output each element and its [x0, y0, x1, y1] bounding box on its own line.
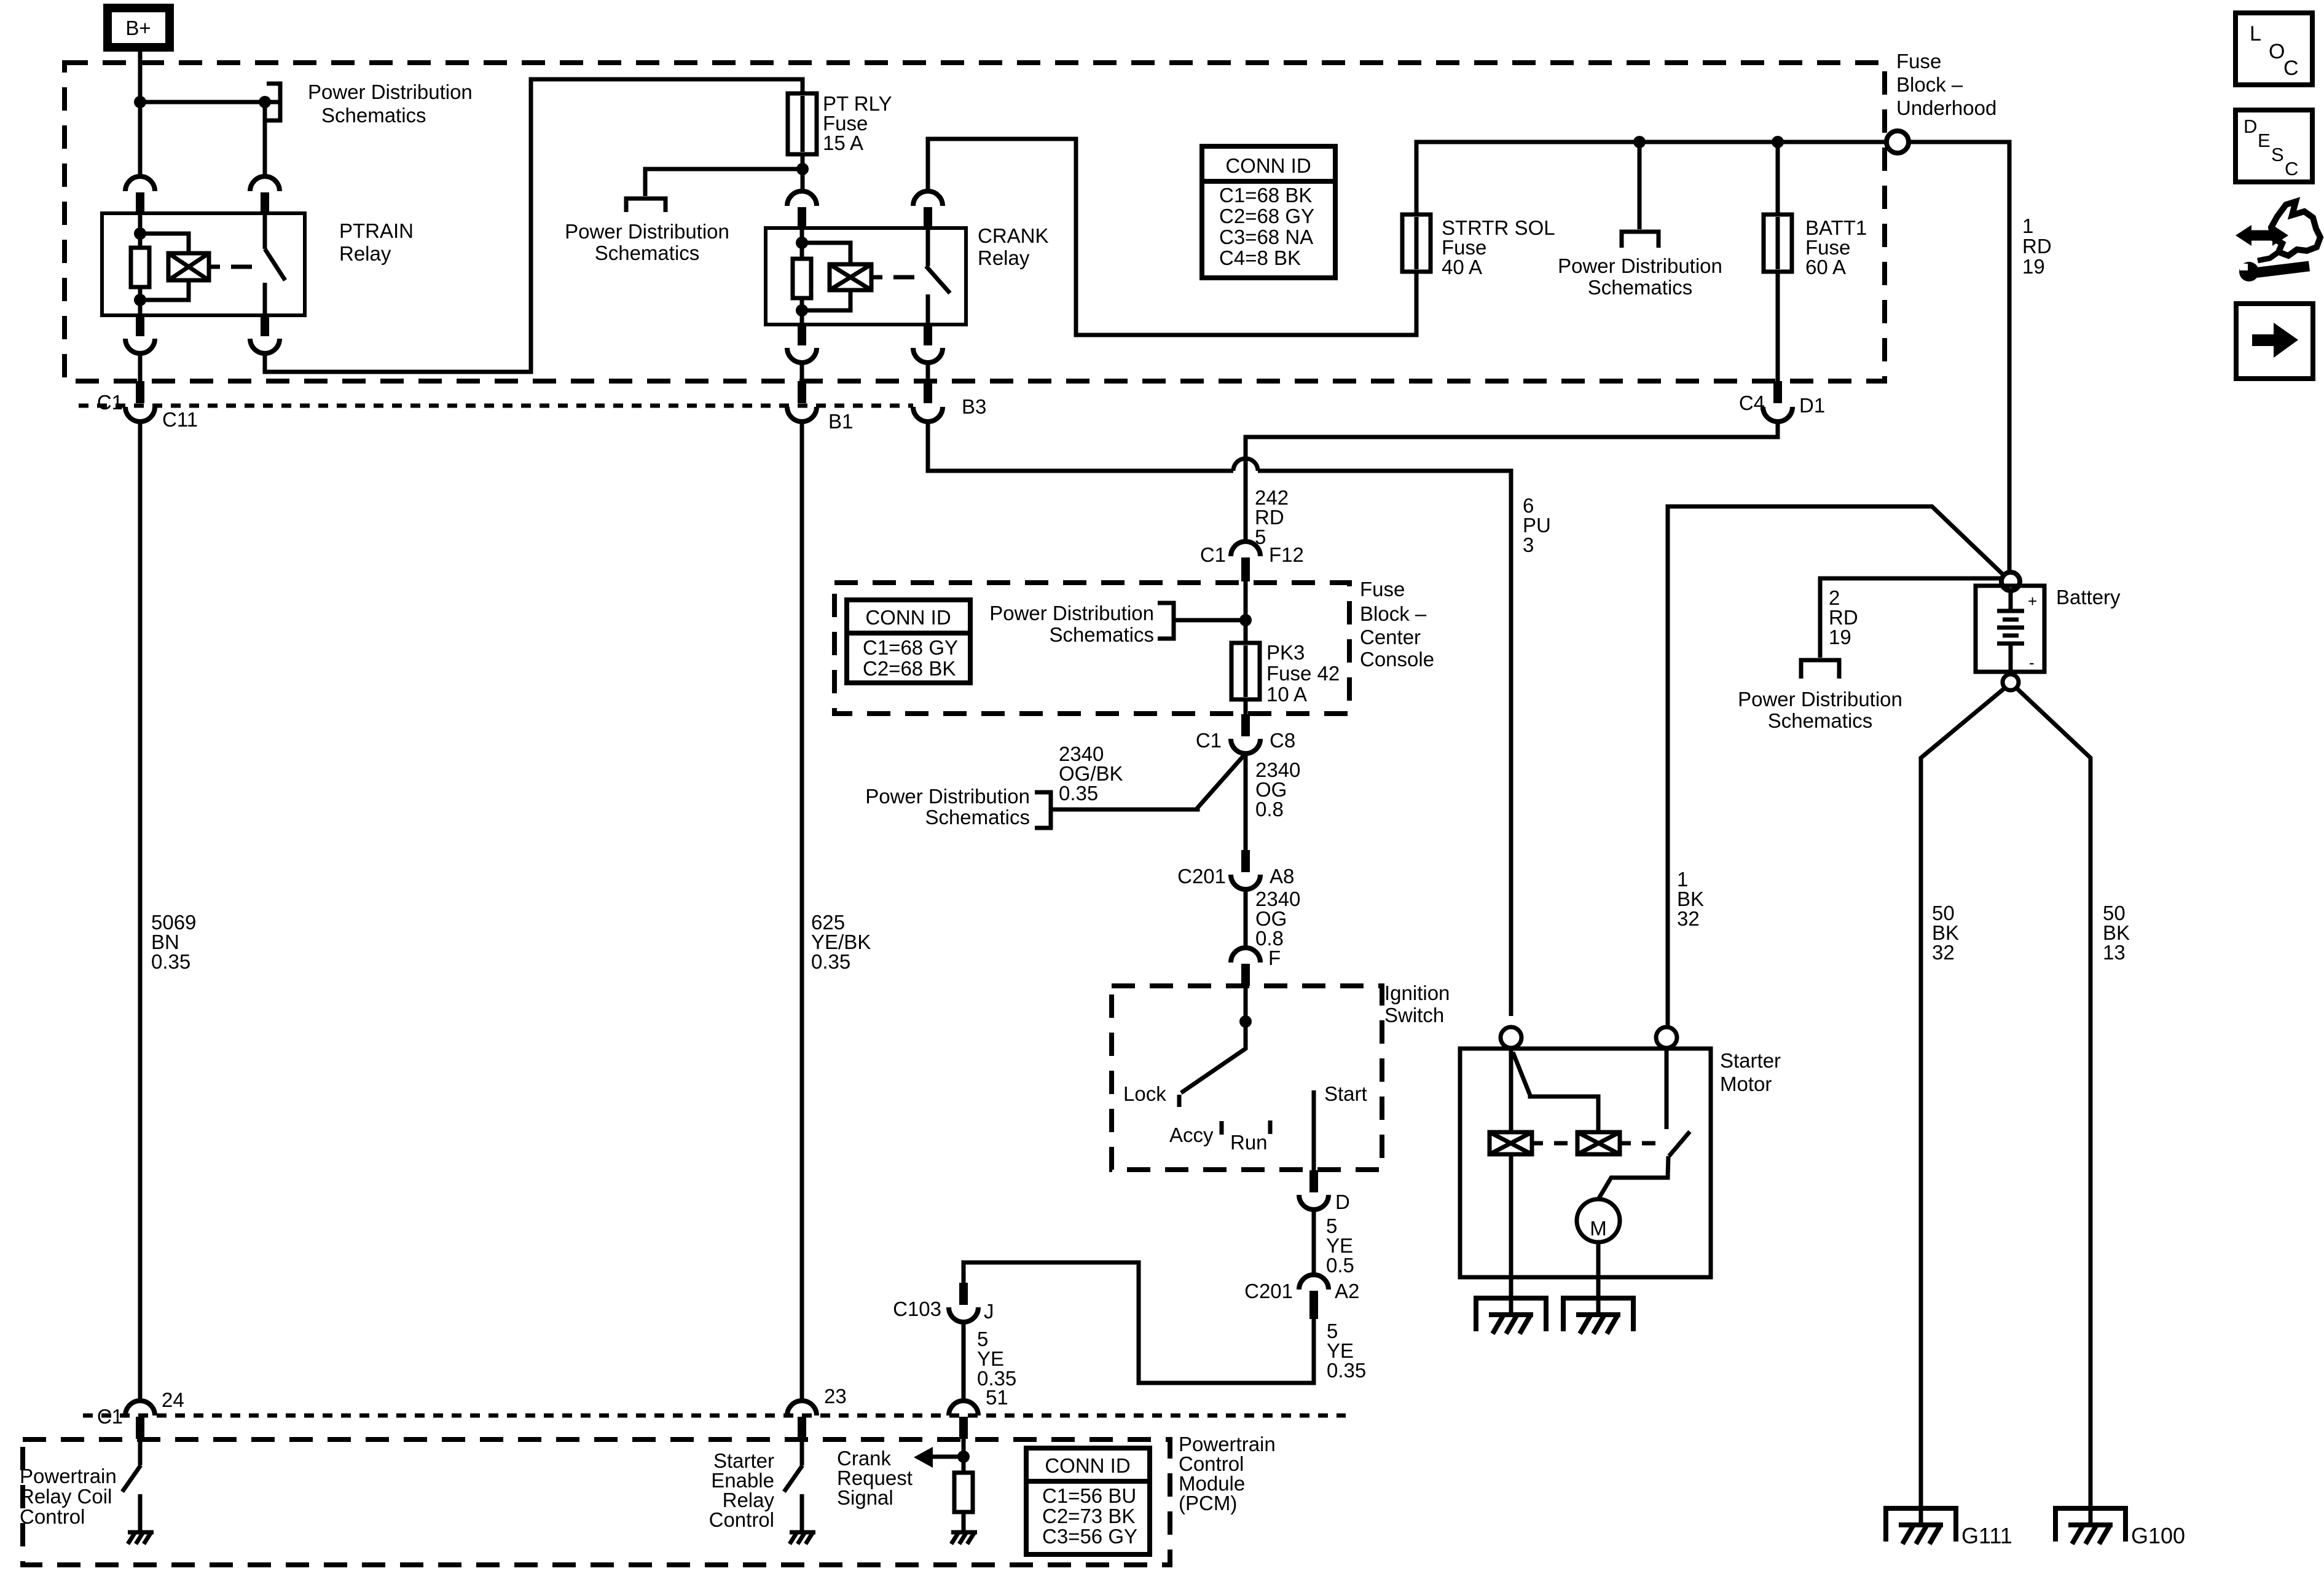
ignition switch dashed enclosure — [1112, 986, 1382, 1170]
svg-text:D1: D1 — [1799, 394, 1825, 417]
svg-text:Power Distribution: Power Distribution — [308, 81, 473, 103]
wire C8 to C201 A8 — [1244, 754, 1248, 850]
label 2 RD 19 — [1829, 586, 1858, 648]
svg-text:15 A: 15 A — [823, 132, 863, 154]
connector B3 — [913, 381, 943, 422]
svg-text:0.8: 0.8 — [1255, 798, 1284, 821]
svg-text:-: - — [2029, 653, 2035, 672]
svg-text:RD: RD — [2022, 235, 2052, 258]
terminal circle starter S — [1501, 1027, 1521, 1048]
junction dot PTRAIN coil bottom — [134, 294, 146, 306]
coil CRANK relay — [830, 264, 871, 290]
svg-text:C4=8 BK: C4=8 BK — [1219, 246, 1301, 269]
svg-text:C103: C103 — [893, 1297, 941, 1320]
label PTRAIN Relay — [339, 219, 414, 265]
svg-text:CONN ID: CONN ID — [1225, 154, 1311, 177]
connector C1 C8 — [1231, 714, 1260, 754]
ground G111 — [1886, 1508, 1956, 1544]
svg-text:C: C — [2283, 57, 2299, 80]
svg-text:Center: Center — [1360, 626, 1421, 648]
svg-text:C8: C8 — [1270, 729, 1295, 752]
wire pull-in coil to ground — [1509, 1154, 1513, 1315]
svg-text:Schematics: Schematics — [321, 104, 426, 127]
svg-text:Relay: Relay — [339, 242, 391, 265]
ground starter motor — [1563, 1298, 1633, 1334]
svg-text:C1: C1 — [1200, 543, 1226, 566]
label Crank Request Signal — [837, 1447, 913, 1509]
connector C201 A8 — [1231, 850, 1260, 889]
off-page bracket power distribution (OG/BK) — [1035, 792, 1051, 828]
junction dot BATT1 branch — [1772, 136, 1784, 148]
svg-text:Power Distribution: Power Distribution — [865, 785, 1030, 808]
wire 1 RD 19 to battery — [1909, 142, 2009, 572]
battery — [1976, 586, 2044, 674]
label STRTR SOL Fuse 40 A — [1442, 216, 1555, 278]
resistor CRANK relay — [793, 259, 811, 298]
connector C1 F12 — [1231, 541, 1260, 581]
contact tick Lock — [1177, 1095, 1182, 1107]
wire CRANK switch output down — [926, 363, 930, 381]
actuation stub CRANK coil — [871, 275, 882, 280]
svg-text:Console: Console — [1360, 648, 1434, 671]
junction dot at PTRAIN pin 2 branch — [259, 96, 271, 108]
svg-text:C3=68 NA: C3=68 NA — [1219, 226, 1313, 248]
motor M starter — [1577, 1199, 1620, 1242]
label Starter Motor — [1720, 1049, 1781, 1095]
wire PTRAIN coil branch bottom — [140, 280, 189, 300]
label 50 BK 32 — [1932, 902, 1959, 964]
fuse PK3 Fuse 42 10A — [1231, 643, 1260, 699]
svg-text:(PCM): (PCM) — [1179, 1492, 1237, 1514]
connector C1 C11 — [125, 381, 155, 422]
starter motor box — [1460, 1049, 1711, 1277]
wire B3 to starter solenoid 6 PU 3 — [928, 420, 1233, 471]
svg-text:B+: B+ — [125, 17, 151, 39]
svg-text:Motor: Motor — [1720, 1073, 1772, 1095]
label PT RLY Fuse 15 A — [823, 92, 892, 154]
svg-text:Control: Control — [20, 1505, 85, 1528]
off-page bracket power distribution (below PT RLY) — [626, 199, 665, 212]
ground pcm pin 23 — [790, 1532, 815, 1544]
svg-text:0.35: 0.35 — [1327, 1359, 1366, 1382]
wire PTRAIN switch output to PT RLY fuse — [265, 79, 803, 372]
connector cup PTRAIN pin 4 bottom — [250, 315, 280, 353]
label Power Distribution Schematics (OG/BK) — [865, 785, 1030, 829]
svg-text:B1: B1 — [828, 410, 853, 433]
connector cup CRANK pin 4 bottom — [913, 325, 943, 363]
label Starter Enable Relay Control — [709, 1449, 775, 1531]
conn id table pcm — [1026, 1448, 1150, 1554]
svg-text:CRANK: CRANK — [978, 224, 1049, 247]
resistor pcm pull-down — [954, 1473, 973, 1512]
switch starter enable relay control — [784, 1439, 803, 1531]
wire bracket to fuse feed — [1174, 618, 1246, 623]
svg-text:D: D — [1335, 1191, 1350, 1213]
svg-text:Accy: Accy — [1169, 1124, 1214, 1146]
node B+ battery positive voltage box — [108, 8, 170, 47]
switch CRANK contact stub bottom — [926, 294, 930, 325]
svg-text:B3: B3 — [962, 395, 986, 418]
actuation dash starter left — [1554, 1141, 1568, 1146]
ground G100 — [2055, 1508, 2126, 1544]
svg-text:0.35: 0.35 — [151, 950, 190, 973]
junction dot top bus branch — [1633, 136, 1646, 148]
label 5069 BN 0.35 — [151, 911, 196, 973]
wire 2 RD 19 branch — [1820, 578, 2001, 658]
wire resistor to ground — [962, 1512, 966, 1531]
fuse STRTR SOL 40A — [1402, 215, 1431, 272]
pcm dashed enclosure — [23, 1439, 1170, 1565]
connector cup PTRAIN pin 3 bottom — [125, 315, 155, 353]
svg-text:CONN ID: CONN ID — [865, 606, 951, 629]
wire 6 PU 3 continues — [1258, 471, 1511, 1016]
actuation stub starter coil left — [1532, 1141, 1543, 1146]
svg-text:Power Distribution: Power Distribution — [565, 220, 729, 243]
wire BATT1 fuse feed — [1776, 142, 1780, 215]
wire PK3 output — [1244, 699, 1248, 714]
wire J down to PCM pin 51 — [962, 1322, 966, 1401]
svg-text:M: M — [1590, 1217, 1607, 1240]
connector D — [1299, 1170, 1329, 1210]
svg-text:A2: A2 — [1335, 1280, 1359, 1302]
switch PTRAIN contact stub bottom — [263, 283, 267, 315]
svg-text:13: 13 — [2103, 941, 2126, 964]
junction dot CRANK coil bottom — [796, 304, 808, 317]
svg-text:32: 32 — [1677, 907, 1700, 930]
svg-text:Fuse 42: Fuse 42 — [1266, 662, 1340, 685]
svg-text:Powertrain: Powertrain — [20, 1465, 117, 1487]
connector C201 A2 — [1299, 1275, 1329, 1319]
off-page bracket power distribution (center console) — [1158, 603, 1174, 639]
svg-text:Signal: Signal — [837, 1486, 893, 1509]
junction dot ignition common — [1239, 1015, 1252, 1028]
label Powertrain Relay Coil Control — [20, 1465, 117, 1528]
label Power Distribution Schematics (below PT RLY) — [565, 220, 729, 264]
label 5 YE 0.35 (A2 side) — [1327, 1320, 1366, 1382]
svg-text:Underhood: Underhood — [1896, 96, 1996, 119]
contact tick Accy — [1220, 1121, 1224, 1135]
label Power Distribution Schematics (top left) — [308, 81, 473, 127]
label 2340 OG 0.8 (upper) — [1255, 758, 1300, 821]
connector F ignition switch feed — [1231, 948, 1260, 986]
label 5 YE 0.35 (J side) — [977, 1328, 1016, 1390]
wire D to C201 A2 — [1312, 1210, 1316, 1275]
terminal circle battery negative — [2003, 674, 2019, 690]
wire branch to power distribution bracket (underhood) — [1638, 142, 1642, 229]
contact tick Run — [1268, 1120, 1273, 1134]
wire CRANK switch feed from STRTR SOL fuse — [928, 139, 1416, 335]
wire S terminal to pull-in coil — [1509, 1048, 1513, 1132]
connector cup CRANK pin 2 top — [913, 191, 943, 229]
svg-text:CONN ID: CONN ID — [1045, 1454, 1130, 1477]
wire B terminal contact — [1665, 1048, 1669, 1129]
svg-text:J: J — [984, 1300, 994, 1323]
dotted connector line PCM row — [83, 1414, 1346, 1418]
svg-text:C201: C201 — [1177, 865, 1226, 888]
svg-text:10 A: 10 A — [1266, 683, 1307, 706]
svg-text:PTRAIN: PTRAIN — [339, 219, 414, 242]
wire branch to PTRAIN relay pin 2 — [140, 102, 265, 177]
actuation stub PTRAIN coil — [209, 265, 220, 269]
svg-text:C11: C11 — [162, 408, 198, 431]
switch starter solenoid blade — [1669, 1132, 1690, 1156]
junction dot CRANK coil top — [796, 237, 808, 249]
wire Start contact down — [1312, 1090, 1316, 1170]
svg-text:19: 19 — [2022, 255, 2045, 278]
switch powertrain relay coil control — [122, 1439, 141, 1531]
label Fuse Block - Underhood — [1896, 50, 1996, 119]
label 2340 OG/BK 0.35 — [1059, 742, 1123, 805]
svg-text:F12: F12 — [1269, 543, 1304, 566]
svg-text:Block –: Block – — [1360, 602, 1427, 625]
connector cup CRANK pin 3 bottom — [787, 325, 817, 363]
wire 242 RD 5 from C4 D1 to center console — [1246, 420, 1778, 541]
svg-text:Control: Control — [709, 1508, 774, 1531]
svg-text:C1=68 BK: C1=68 BK — [1219, 184, 1312, 207]
connector pin 24 — [125, 1401, 155, 1439]
svg-text:Fuse: Fuse — [1896, 50, 1941, 73]
icon forward arrow box — [2236, 304, 2313, 379]
wire A2 to C103 J route — [964, 1262, 1314, 1383]
ground pcm pin 51 — [951, 1532, 977, 1544]
connector pin 51 — [949, 1401, 978, 1439]
svg-text:60 A: 60 A — [1805, 256, 1846, 278]
arrow crank request signal — [914, 1447, 964, 1468]
icon wrench and arrows — [2236, 202, 2320, 282]
svg-text:Ignition: Ignition — [1384, 982, 1450, 1004]
svg-text:C4: C4 — [1739, 392, 1765, 414]
svg-text:24: 24 — [162, 1388, 184, 1411]
svg-text:Run: Run — [1230, 1131, 1268, 1154]
wire CRANK coil output down — [800, 363, 804, 381]
wire battery negative to G111 — [1921, 688, 2005, 1525]
svg-text:Schematics: Schematics — [1588, 276, 1693, 299]
svg-text:C2=68 GY: C2=68 GY — [1219, 205, 1314, 227]
relay CRANK box — [766, 228, 966, 325]
svg-text:C1=68 GY: C1=68 GY — [863, 636, 958, 659]
svg-text:C1=56 BU: C1=56 BU — [1042, 1484, 1136, 1507]
terminal circle starter B — [1656, 1027, 1677, 1048]
actuation dash starter right — [1642, 1141, 1655, 1146]
svg-text:F: F — [1268, 947, 1281, 969]
connector cup CRANK pin 1 top — [787, 191, 817, 229]
fuse PT RLY 15A — [788, 93, 817, 154]
switch CRANK contact stub top — [926, 228, 930, 266]
label BATT1 Fuse 60 A — [1805, 216, 1867, 278]
label 2340 OG 0.8 (lower) — [1255, 888, 1300, 950]
label Ignition Switch — [1384, 982, 1450, 1026]
dotted connector line C11 row — [79, 404, 913, 408]
off-page bracket power distribution (top left) — [267, 84, 280, 120]
wire PTRAIN coil top — [138, 213, 143, 248]
junction dot crank request — [957, 1451, 970, 1463]
wire PTRAIN resistor bottom to box — [138, 287, 143, 315]
ground starter pull-in coil — [1476, 1298, 1546, 1334]
terminal circle fuse block underhood output — [1886, 131, 1909, 153]
wire solenoid switch to motor — [1598, 1156, 1668, 1199]
wire pin 51 to crank request node — [962, 1439, 966, 1473]
svg-text:51: 51 — [986, 1386, 1008, 1409]
svg-text:40 A: 40 A — [1442, 256, 1482, 278]
wire S tap blade — [1513, 1052, 1598, 1132]
svg-text:Start: Start — [1324, 1082, 1367, 1105]
wire PTRAIN coil branch top — [140, 234, 189, 253]
label 625 YE/BK 0.35 — [811, 911, 871, 973]
svg-text:Starter: Starter — [1720, 1049, 1781, 1072]
off-page bracket power distribution (underhood) — [1622, 232, 1659, 248]
junction dot center console branch — [1239, 614, 1252, 626]
svg-text:Schematics: Schematics — [925, 806, 1030, 829]
label 50 BK 13 — [2103, 902, 2130, 964]
icon LOC box — [2236, 13, 2312, 85]
wire B+ to PTRAIN relay pin 1 — [138, 52, 143, 177]
wire A8 to F — [1244, 889, 1248, 949]
label 1 BK 32 — [1677, 868, 1704, 930]
conn id table center console — [847, 600, 970, 683]
wire battery negative to G100 — [2016, 688, 2090, 1525]
svg-text:C2=73 BK: C2=73 BK — [1042, 1505, 1135, 1527]
resistor PTRAIN relay — [131, 248, 149, 287]
fuse block center console dashed enclosure — [834, 583, 1349, 714]
icon DESC box — [2236, 110, 2312, 182]
svg-text:C: C — [2285, 158, 2298, 179]
wire PTRAIN coil output down — [138, 353, 143, 381]
wire motor to ground — [1596, 1242, 1601, 1315]
svg-text:C3=56 GY: C3=56 GY — [1042, 1525, 1137, 1548]
fuse BATT1 60A — [1764, 215, 1792, 272]
connector pin 23 — [787, 1401, 817, 1439]
label 6 PU 3 — [1523, 494, 1551, 556]
switch PTRAIN contact stub top — [263, 213, 267, 249]
ground pcm pin 24 — [128, 1532, 154, 1544]
coil PTRAIN relay — [168, 253, 209, 280]
off-page bracket power distribution (2 RD 19) — [1801, 660, 1839, 679]
svg-text:E: E — [2258, 130, 2271, 151]
label Power Distribution Schematics (2 RD 19) — [1738, 688, 1902, 732]
svg-text:Lock: Lock — [1123, 1082, 1166, 1105]
wire battery to starter B terminal — [1668, 506, 2004, 1027]
terminal circle battery positive — [2001, 572, 2020, 591]
junction dot at B+ branch — [134, 96, 146, 108]
label Fuse Block - Center Console — [1360, 578, 1434, 671]
label 1 RD 19 — [2022, 215, 2052, 278]
fuse block underhood dashed enclosure — [65, 63, 1885, 381]
junction dot below PT RLY fuse — [796, 163, 809, 175]
wire branch to power distribution bracket — [645, 169, 803, 196]
label CRANK Relay — [978, 224, 1049, 269]
svg-text:Schematics: Schematics — [595, 242, 700, 264]
actuation dash CRANK — [893, 275, 914, 280]
svg-text:S: S — [2271, 144, 2284, 165]
svg-text:A8: A8 — [1270, 865, 1294, 888]
label PK3 Fuse 42 10 A — [1266, 641, 1340, 706]
wire 625 YE/BK starter enable relay control — [800, 422, 804, 1401]
wire stub to power distribution bracket — [265, 100, 278, 104]
conn id table underhood fuse block — [1202, 146, 1335, 278]
coil starter hold-in — [1577, 1132, 1620, 1154]
svg-text:C1: C1 — [97, 391, 123, 414]
svg-text:23: 23 — [824, 1385, 847, 1408]
svg-text:0.35: 0.35 — [1059, 782, 1098, 805]
svg-text:Fuse: Fuse — [1360, 578, 1405, 600]
label Power Distribution Schematics (underhood) — [1558, 254, 1722, 299]
connector cup PTRAIN pin 1 top — [125, 176, 155, 215]
svg-text:Block –: Block – — [1896, 73, 1963, 96]
svg-text:G111: G111 — [1961, 1523, 2012, 1548]
svg-text:32: 32 — [1932, 941, 1955, 964]
svg-text:C1: C1 — [1196, 729, 1222, 752]
wire F pin into ignition switch — [1244, 986, 1248, 1022]
svg-text:O: O — [2269, 40, 2285, 63]
junction dot PTRAIN coil top — [134, 227, 146, 240]
wire CRANK coil top — [800, 228, 804, 259]
label Power Distribution Schematics (center console) — [989, 602, 1154, 646]
wire CRANK resistor bottom to box — [800, 298, 804, 325]
svg-text:0.35: 0.35 — [811, 950, 850, 973]
svg-text:Battery: Battery — [2056, 586, 2121, 608]
actuation dash PTRAIN — [231, 265, 252, 269]
connector B1 — [787, 381, 817, 422]
coil starter pull-in — [1490, 1132, 1532, 1154]
label Powertrain Control Module (PCM) — [1179, 1433, 1276, 1514]
wire 2340 OG/BK branch diagonal — [1174, 754, 1246, 809]
svg-text:Relay: Relay — [978, 246, 1030, 269]
connector cup PTRAIN pin 2 top — [250, 176, 280, 215]
svg-text:Power Distribution: Power Distribution — [989, 602, 1154, 624]
svg-text:0.5: 0.5 — [1326, 1254, 1354, 1277]
svg-text:C1: C1 — [97, 1405, 123, 1428]
switch ignition blade to Lock — [1181, 1022, 1246, 1093]
svg-text:3: 3 — [1523, 534, 1534, 556]
svg-text:PK3: PK3 — [1266, 641, 1305, 664]
svg-text:G100: G100 — [2131, 1523, 2185, 1548]
svg-text:Power Distribution: Power Distribution — [1738, 688, 1902, 711]
wire underhood top bus — [1416, 142, 1886, 272]
svg-text:19: 19 — [1829, 626, 1851, 648]
label 5 YE 0.5 — [1326, 1215, 1354, 1277]
connector C103 J — [949, 1283, 978, 1322]
svg-text:D: D — [2244, 116, 2257, 137]
actuation stub starter coil right — [1620, 1141, 1631, 1146]
switch CRANK blade — [926, 266, 950, 293]
svg-text:C201: C201 — [1244, 1280, 1293, 1302]
svg-text:L: L — [2250, 22, 2261, 45]
svg-text:+: + — [2028, 592, 2037, 610]
wire CRANK coil branch bottom — [802, 290, 850, 310]
wire F12 pin to PK3 fuse — [1244, 581, 1248, 643]
wire bracket OG/BK horizontal — [1051, 808, 1198, 812]
wire BATT1 fuse output — [1776, 272, 1780, 381]
svg-text:Power Distribution: Power Distribution — [1558, 254, 1722, 277]
label 242 RD 5 — [1255, 486, 1289, 548]
svg-text:Schematics: Schematics — [1049, 623, 1154, 646]
svg-text:Switch: Switch — [1384, 1004, 1444, 1026]
wire PT RLY fuse output — [801, 154, 805, 191]
svg-text:C2=68 BK: C2=68 BK — [863, 657, 956, 680]
svg-text:1: 1 — [2022, 215, 2033, 237]
connector C4 D1 — [1763, 381, 1792, 422]
wire CRANK coil branch top — [802, 243, 850, 264]
svg-text:Schematics: Schematics — [1768, 709, 1873, 732]
wire hop over 242 RD wire — [1233, 459, 1258, 471]
wire 5069 BN PTRAIN coil control — [138, 422, 143, 1401]
relay PTRAIN box — [102, 213, 305, 315]
switch PTRAIN blade — [265, 249, 285, 280]
svg-text:Relay Coil: Relay Coil — [20, 1485, 112, 1508]
